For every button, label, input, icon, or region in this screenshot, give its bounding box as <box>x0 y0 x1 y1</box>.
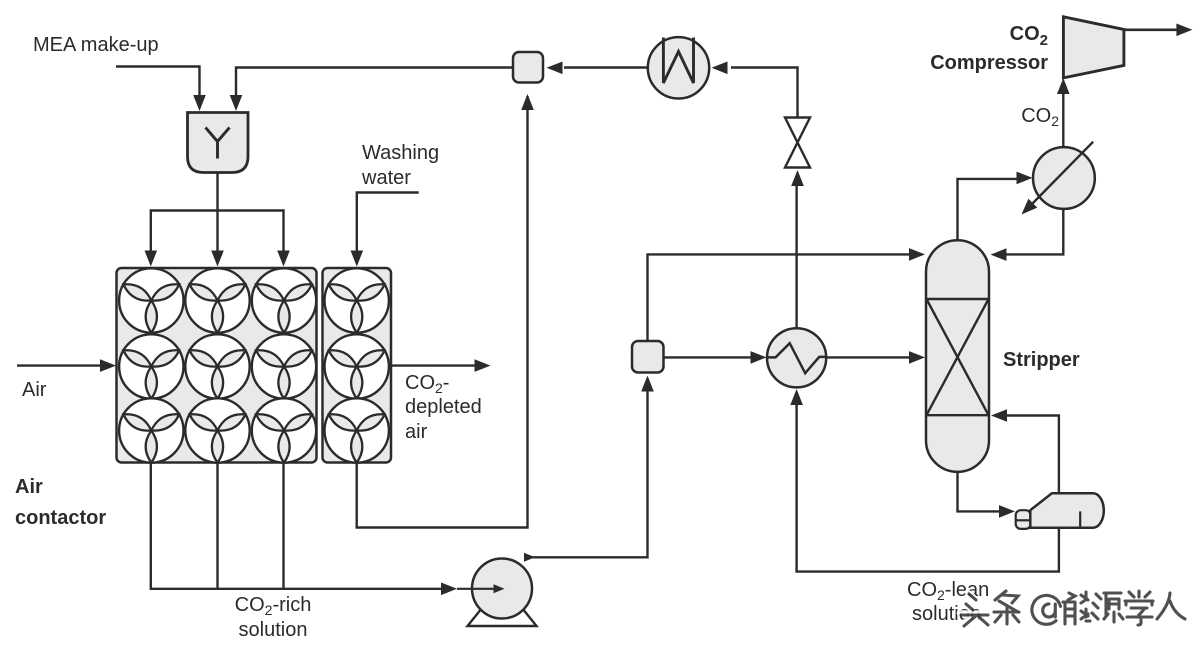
svg-text:air: air <box>405 421 428 443</box>
arrow into washing column <box>351 251 364 267</box>
fan row2 col3 <box>252 334 316 398</box>
watermark toutiao <box>959 589 1185 626</box>
node mixing point <box>513 52 543 83</box>
fan row1 col2 <box>185 268 249 332</box>
cooler W coil <box>663 38 693 84</box>
reboiler level tick <box>1079 511 1081 527</box>
svg-text:depleted: depleted <box>405 396 482 418</box>
wire stripper bottoms to reboiler <box>958 472 1001 512</box>
wire drop mid <box>216 211 218 255</box>
fan washing row1 <box>325 268 389 332</box>
arrow into contactor col3 <box>277 251 290 267</box>
wire exchanger to stripper <box>826 356 909 358</box>
wire condenser to compressor <box>1062 92 1064 147</box>
compressor <box>1063 17 1124 78</box>
fan row2 col2 <box>185 334 249 398</box>
washing section vessel <box>323 268 392 463</box>
arrow lean into valve <box>791 170 804 186</box>
arrow into exchanger left <box>751 351 767 364</box>
wire washing water feed <box>357 193 419 255</box>
arrow reflux into stripper <box>991 248 1007 261</box>
arrow into contactor col1 <box>145 251 158 267</box>
wire condenser reflux <box>1005 209 1063 255</box>
stripper column <box>926 240 989 472</box>
mixer vessel <box>188 113 249 173</box>
svg-text:Air: Air <box>15 476 43 498</box>
condenser body <box>1033 147 1095 209</box>
wire depleted air outlet <box>392 364 477 366</box>
svg-text:water: water <box>361 167 411 189</box>
svg-text:Compressor: Compressor <box>930 52 1048 74</box>
arrow vapor into condenser <box>1017 172 1033 185</box>
wire mixer outlet header <box>216 173 218 211</box>
svg-text:contactor: contactor <box>15 507 106 529</box>
arrow depleted air <box>475 359 491 372</box>
wire air inlet <box>17 364 102 366</box>
arrow into cooler right <box>712 62 728 75</box>
pump body <box>472 559 532 619</box>
arrow rich solution to pump <box>441 583 457 596</box>
svg-text:MEA make-up: MEA make-up <box>33 34 159 56</box>
heat exchanger body <box>767 328 826 387</box>
cooler body <box>648 37 709 98</box>
arrow air into contactor <box>100 359 116 372</box>
arrow pump center <box>494 584 505 593</box>
arrow compressed CO2 out <box>1176 24 1192 37</box>
svg-text:Air: Air <box>22 379 47 401</box>
wire contactor bottoms col3 <box>282 463 284 589</box>
wire cooler to mix node <box>564 66 648 68</box>
svg-text:Washing: Washing <box>362 142 439 164</box>
arrow into mixer right inlet <box>230 95 243 111</box>
fan row3 col2 <box>185 398 249 462</box>
arrow rich feed into stripper <box>909 248 925 261</box>
stripper packing <box>926 298 989 300</box>
node splitter <box>632 341 664 373</box>
arrow vapor into stripper <box>991 409 1007 422</box>
air contactor vessel <box>117 268 317 463</box>
wire into pump <box>457 588 497 590</box>
reboiler nozzle <box>1016 510 1031 529</box>
wire pump outlet <box>531 390 648 557</box>
fan row3 col1 <box>119 398 183 462</box>
fan row3 col3 <box>252 398 316 462</box>
wire contactor bottoms col1 <box>151 463 442 589</box>
svg-text:solution: solution <box>239 619 308 641</box>
pump base <box>468 603 537 626</box>
arrow into mix node bottom <box>521 94 534 110</box>
reboiler body <box>1030 493 1104 527</box>
fan washing row2 <box>325 334 389 398</box>
fan washing row3 <box>325 398 389 462</box>
arrow into contactor col2 <box>211 251 224 267</box>
wire split to exchanger <box>664 356 753 358</box>
arrow lean into exchanger <box>790 389 803 405</box>
pump outlet arrow <box>524 553 535 562</box>
fan row2 col1 <box>119 334 183 398</box>
svg-text:CO2-: CO2- <box>405 372 449 396</box>
arrow into split node <box>641 376 654 392</box>
condenser diagonal arrow <box>1022 199 1038 215</box>
arrow into reboiler <box>999 505 1015 518</box>
wire lean return to mixer <box>236 68 513 100</box>
svg-text:Stripper: Stripper <box>1003 349 1080 371</box>
arrow into mix node right <box>547 62 563 75</box>
wire contactor bottoms col2 <box>216 463 218 589</box>
arrow hot rich into stripper <box>909 351 925 364</box>
wire drop left <box>150 209 152 254</box>
svg-text:CO2-rich: CO2-rich <box>235 594 312 618</box>
arrow into mixer left inlet <box>193 95 206 111</box>
wire exchanger top to valve <box>795 184 797 328</box>
mixer Y symbol <box>206 128 230 159</box>
wire washing bottoms return <box>357 96 528 528</box>
fan row1 col1 <box>119 268 183 332</box>
condenser diagonal <box>1032 142 1094 205</box>
wire lean into exchanger bottom <box>797 403 1059 572</box>
wire split to stripper top feed <box>648 254 910 341</box>
wire drop right <box>282 209 284 254</box>
wire MEA make-up feed <box>116 67 200 100</box>
fan row1 col3 <box>252 268 316 332</box>
wire valve to top run <box>731 68 798 118</box>
wire stripper overhead <box>958 179 1019 240</box>
arrow CO2 into compressor <box>1057 78 1070 94</box>
valve <box>785 118 810 168</box>
wire reboiler vapor return <box>1005 416 1059 494</box>
wire compressor outlet <box>1124 28 1178 31</box>
heat exchanger zigzag <box>767 343 826 373</box>
